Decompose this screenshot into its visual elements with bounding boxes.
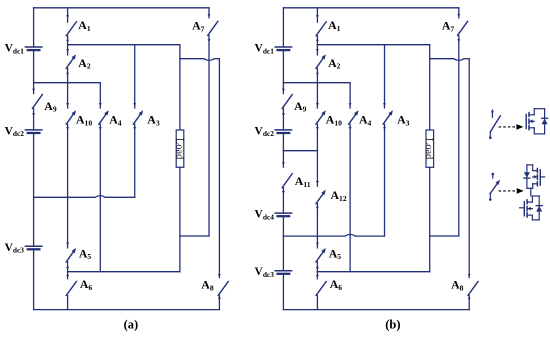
switch A7 stub (b) [457,8,460,18]
switch A11 blade (b) [282,174,292,188]
wire left rail seg3 (a) [32,108,35,129]
wire col1 seg5 (b) [316,295,318,309]
wire y197 (a) [34,196,135,198]
wire col1 seg2 (a) [66,68,69,108]
svg-text:(b): (b) [385,318,400,332]
wire left rail seg2 (b) [282,52,285,94]
switch A1 stub (a) [66,8,69,22]
wire node1 y45 (a) [68,44,180,46]
wire load bottom (a) [179,167,181,271]
battery Vdc2 (a) [25,130,41,133]
switch A7 stub (a) [208,8,211,18]
wire top rail (b) [283,7,458,9]
label A1 (a) [78,18,91,33]
switch A7 blade (b) [458,21,468,35]
wire col A8 lower (a) [218,295,221,309]
switch A1 stub (b) [316,8,319,22]
switch A4 stub (b) [349,83,352,108]
wire col A7 lower (a) [208,35,211,236]
caption (b) [385,318,400,332]
switch A4 blade (b) [349,110,359,124]
wire col A3 lower (b) [383,124,386,236]
label Vdc3 (a) [5,242,25,255]
wire y236 left (b) [283,234,384,236]
switch A7 blade (a) [208,21,218,35]
label A11 (b) [295,174,311,189]
wire left rail seg4 (a) [33,135,35,247]
switch A4 stub (a) [99,83,102,108]
switch A3 stub (b) [383,45,386,108]
wire col1 seg3 (b) [316,124,319,186]
wire node1 y45 (b) [317,44,429,46]
label A5 (b) [329,246,342,261]
label A2 (b) [328,56,341,71]
battery Vdc2 (b) [275,130,291,133]
wire col1 seg1 (b) [316,36,319,55]
wire top rail (a) [34,7,209,9]
legend bidirectional pair link wire [530,188,532,196]
label A3 (b) [397,113,410,128]
switch A8 blade (a) [218,282,228,296]
label A2 (a) [78,56,91,71]
switch A10 blade (b) [316,110,326,124]
wire col A4 lower (a) [99,124,102,272]
legend bidirectional pair upper MOSFET [524,165,545,188]
label A4 (b) [359,113,372,128]
svg-text:(a): (a) [124,318,139,332]
wire col1 seg3 (a) [66,124,69,248]
load resistor (b) [423,130,434,167]
wire y83 (b) [283,82,350,84]
label A3 (a) [147,113,160,128]
label A1 (b) [328,18,341,33]
wire col A8 upper (a) [218,59,221,278]
label Vdc2 (a) [5,125,25,138]
wire col1 seg4 (b) [316,262,319,279]
wire left rail seg2 (a) [32,52,35,94]
wire y236 load-A7 (b) [430,235,459,237]
wire left rail seg5 (b) [282,188,285,214]
wire load top (b) [429,45,431,130]
wire left rail top (b) [282,8,284,47]
wire load top (a) [179,45,181,130]
switch A5 blade (b) [316,248,326,262]
switch A2 blade (b) [316,54,326,68]
label A6 (b) [330,277,343,292]
wire y236 load-A7 (a) [180,235,209,237]
wire y59 to A8 column (b) [430,59,470,61]
caption (a) [124,318,139,332]
switch A6 blade (b) [316,282,326,296]
switch A10 blade (a) [66,110,76,124]
legend switch symbol bidirectional [489,173,500,201]
battery Vdc3 (a) [25,246,41,249]
wire col A8 lower (b) [468,295,471,309]
battery Vdc4 (b) [275,213,291,216]
battery Vdc3 (b) [275,271,291,274]
label A5 (a) [79,246,92,261]
switch A3 stub (a) [133,45,136,108]
wire y83 (a) [34,82,101,84]
wire col A7 lower (b) [457,35,460,236]
legend dashed arrow 2 [499,188,524,194]
switch A3 blade (b) [383,110,393,124]
label Vdc3 (b) [255,266,275,279]
wire col1 seg1 (a) [66,36,69,55]
label A8 (b) [451,278,464,293]
label A6 (a) [80,277,93,292]
legend switch symbol unidirectional [489,109,500,139]
load resistor (a) [173,130,184,167]
switch A2 blade (a) [66,54,76,68]
switch A6 blade (a) [66,282,76,296]
label Vdc4 (b) [255,209,275,222]
switch A9 blade (b) [282,95,292,109]
switch A9 blade (a) [32,95,42,109]
label A4 (a) [109,113,122,128]
label A10 (a) [76,113,92,128]
label A8 (a) [201,278,214,293]
switch A12 blade (b) [316,190,326,204]
switch A8 blade (b) [468,282,478,296]
wire col1 seg3b (b) [316,204,319,248]
wire col1 seg4 (a) [66,262,69,279]
switch A5 blade (a) [66,248,76,262]
wire col A3 lower (a) [133,124,136,197]
legend bidirectional pair lower MOSFET [524,196,542,220]
wire left rail top (a) [33,8,35,47]
battery Vdc1 (a) [25,47,41,50]
legend bidirectional pair lower MOSFET gate lead [520,207,525,209]
wire left rail seg7 (b) [282,274,284,309]
wire col1 seg5 (a) [67,295,69,309]
switch A4 blade (a) [99,110,109,124]
wire bottom rail (b) [283,309,469,311]
wire left rail seg4 (b) [282,135,285,168]
label Vdc1 (a) [5,43,25,56]
label A10 (b) [326,113,342,128]
label A9 (b) [294,99,307,114]
wire y151 (b) [283,150,317,152]
label Vdc1 (b) [255,43,275,56]
svg-text:Load: Load [423,138,434,160]
wire col A4 lower (b) [349,124,352,272]
wire bottom rail (a) [34,309,220,311]
label A7 (a) [192,19,205,34]
switch A3 blade (a) [133,110,143,124]
legend dashed arrow 1 [499,124,524,130]
label A9 (a) [44,99,57,114]
wire y272 (b) [317,271,429,273]
label A7 (b) [442,19,455,34]
wire left rail seg6 (b) [282,217,284,271]
wire left rail seg5 (a) [33,251,35,310]
switch A1 blade (b) [316,22,326,36]
wire col1 seg2 (b) [316,68,319,108]
battery Vdc1 (b) [275,47,291,50]
label A12 (b) [331,188,347,203]
switch A1 blade (a) [66,22,76,36]
label Vdc2 (b) [255,125,275,138]
wire load bottom (b) [429,167,431,271]
wire col A8 upper (b) [468,59,471,278]
wire left rail seg3 (b) [282,108,285,129]
wire y59 to A8 column (a) [180,59,220,61]
legend MOSFET with antiparallel diode U-leg1 [526,109,547,134]
svg-text:Load: Load [173,138,184,160]
wire y272 (a) [68,271,180,273]
